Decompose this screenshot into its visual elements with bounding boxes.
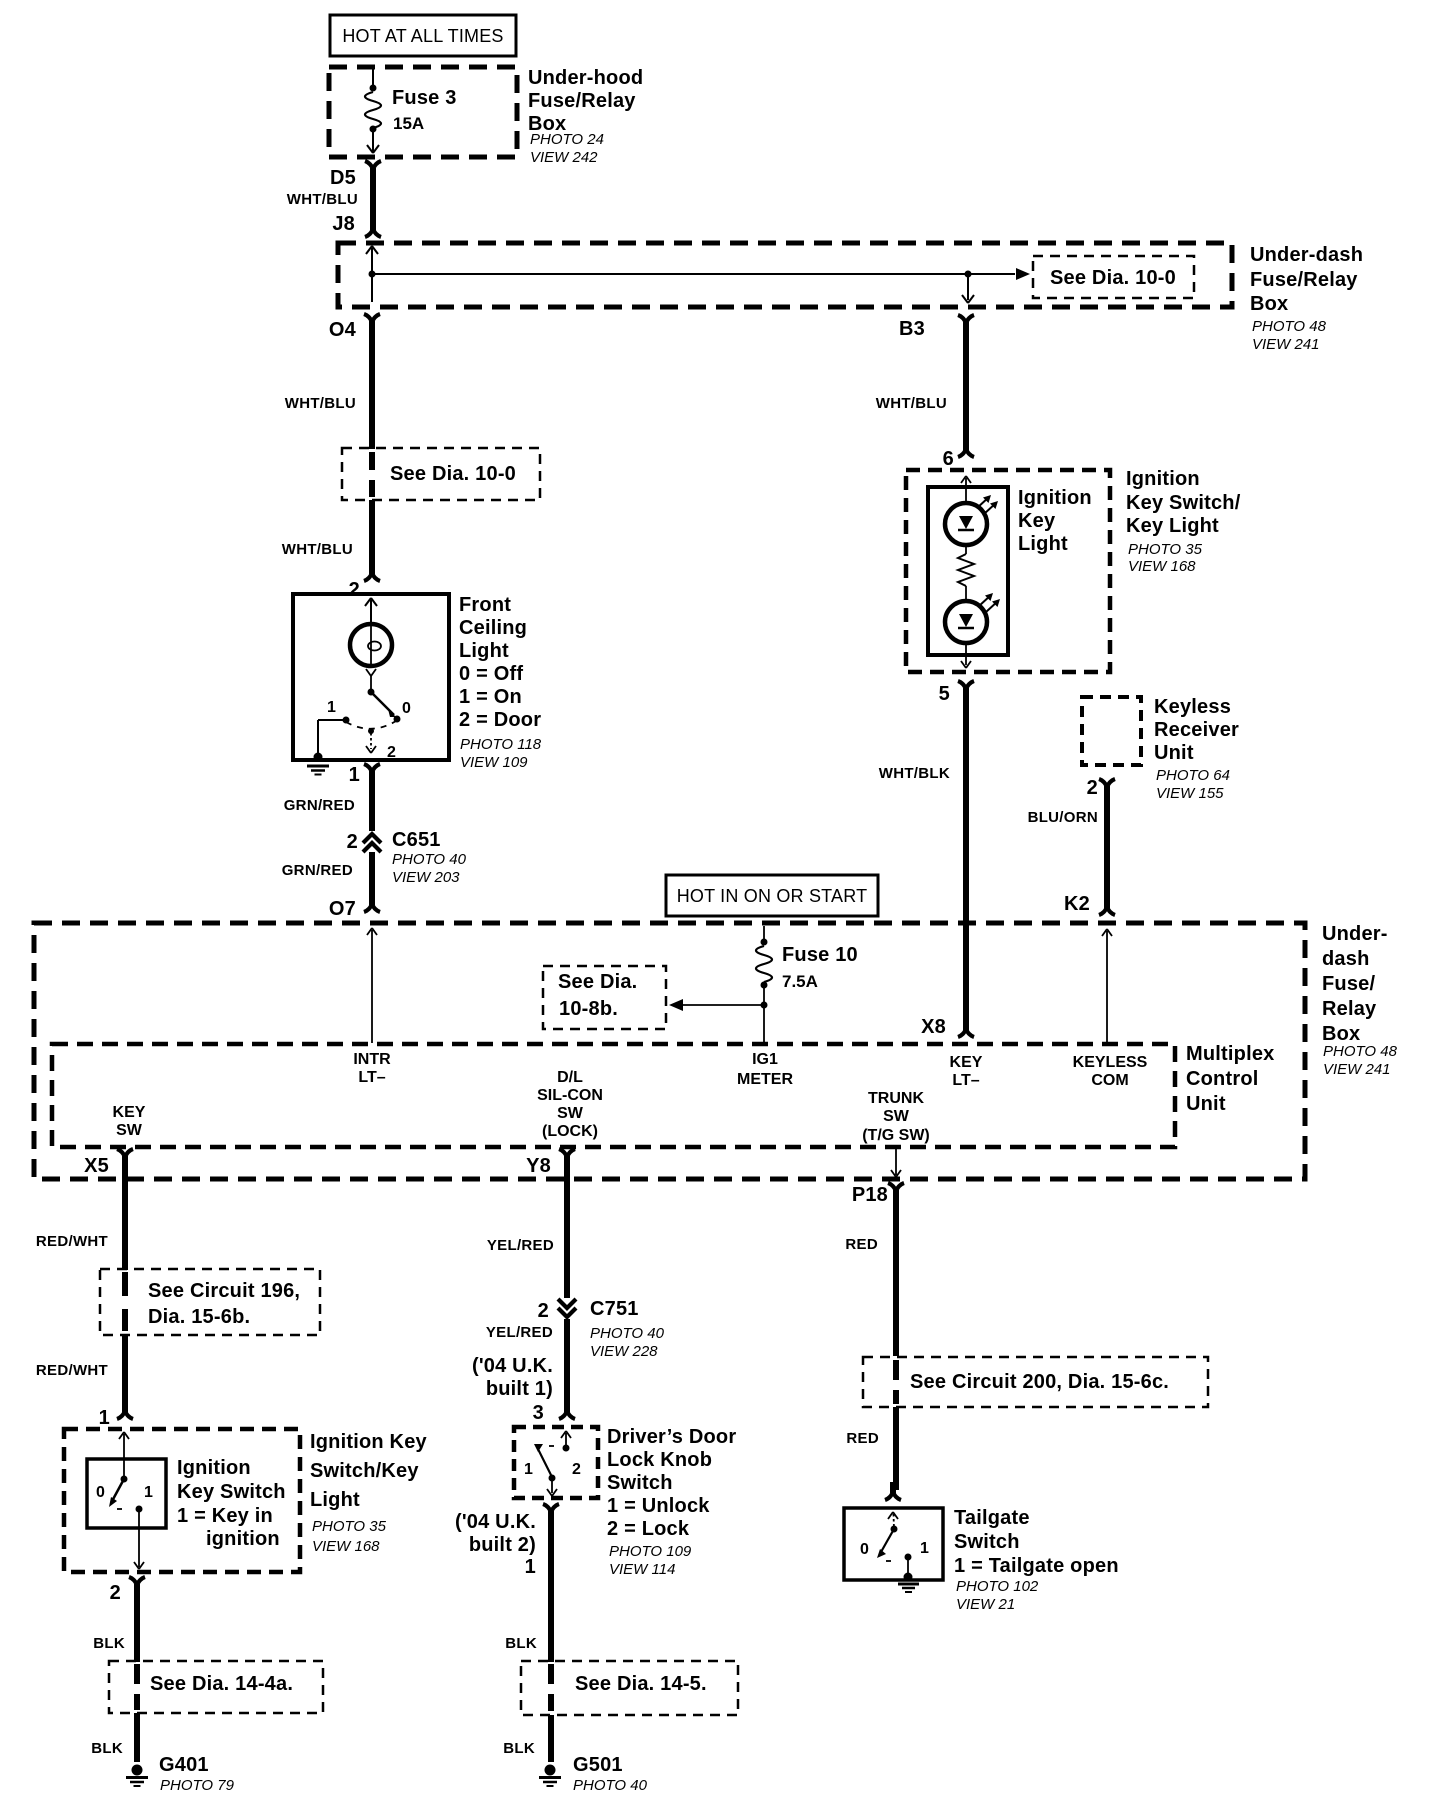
pin label IG1 METER xyxy=(737,1051,793,1088)
svg-text:PHOTO 109: PHOTO 109 xyxy=(609,1543,692,1560)
svg-text:LT–: LT– xyxy=(952,1072,979,1089)
svg-text:Fuse/Relay: Fuse/Relay xyxy=(1250,269,1358,291)
wire segment dashed inside reference box xyxy=(369,452,375,497)
svg-text:1 = Unlock: 1 = Unlock xyxy=(607,1495,710,1517)
svg-text:VIEW 114: VIEW 114 xyxy=(609,1561,675,1578)
svg-text:Driver’s Door: Driver’s Door xyxy=(607,1426,736,1448)
svg-text:3: 3 xyxy=(533,1402,544,1424)
under-hood fuse/relay box xyxy=(329,67,517,157)
wire dashed inside box xyxy=(893,1360,899,1404)
svg-text:Multiplex: Multiplex xyxy=(1186,1043,1274,1065)
under-dash fuse/relay box (lower) xyxy=(34,923,1305,1179)
LED lamp (key light upper) xyxy=(945,495,998,545)
svg-text:PHOTO 118: PHOTO 118 xyxy=(460,736,542,753)
svg-text:2: 2 xyxy=(110,1582,121,1604)
svg-text:G401: G401 xyxy=(159,1754,209,1776)
svg-text:Unit: Unit xyxy=(1154,742,1194,764)
svg-text:Lock Knob: Lock Knob xyxy=(607,1449,712,1471)
svg-text:WHT/BLK: WHT/BLK xyxy=(879,765,950,782)
svg-text:VIEW 109: VIEW 109 xyxy=(460,754,528,771)
connector pin 2 ceiling light xyxy=(349,563,380,601)
ground (tailgate switch, internal) xyxy=(898,1557,919,1592)
svg-text:RED/WHT: RED/WHT xyxy=(36,1233,108,1250)
svg-text:Key: Key xyxy=(1018,510,1056,532)
fuse 3 value labels xyxy=(392,87,457,133)
svg-text:INTR: INTR xyxy=(353,1051,391,1068)
svg-text:VIEW 155: VIEW 155 xyxy=(1156,785,1224,802)
reference box See Dia. 10-8b. xyxy=(543,966,666,1029)
svg-text:Switch: Switch xyxy=(954,1531,1020,1553)
connector pin 6 xyxy=(943,439,974,470)
note (04 U.K. built 2) xyxy=(455,1511,536,1578)
svg-text:Switch/Key: Switch/Key xyxy=(310,1460,419,1482)
wire RED/WHT lower (X5) xyxy=(36,1335,125,1409)
wire through key light xyxy=(961,476,971,503)
svg-text:VIEW 203: VIEW 203 xyxy=(392,869,460,886)
svg-text:WHT/BLU: WHT/BLU xyxy=(285,395,356,412)
svg-text:J8: J8 xyxy=(332,213,355,235)
svg-text:2: 2 xyxy=(349,579,360,601)
svg-text:PHOTO 24: PHOTO 24 xyxy=(530,131,604,148)
pin label TRUNK SW (T/G SW) + wire to P18 xyxy=(862,1090,930,1177)
LED lamp (key light lower) xyxy=(945,593,1000,643)
svg-text:(T/G SW): (T/G SW) xyxy=(862,1127,930,1144)
svg-text:Ignition Key: Ignition Key xyxy=(310,1431,428,1453)
svg-text:B3: B3 xyxy=(899,318,925,340)
svg-text:built 2): built 2) xyxy=(469,1534,536,1556)
ignition key light inner labels xyxy=(1018,487,1092,555)
svg-text:RED: RED xyxy=(846,1430,879,1447)
svg-text:15A: 15A xyxy=(393,114,424,133)
svg-text:Under-dash: Under-dash xyxy=(1250,244,1363,266)
connector pin 2 keyless xyxy=(1087,777,1115,799)
svg-text:D5: D5 xyxy=(330,167,356,189)
wire GRN/RED lower xyxy=(282,852,372,901)
ignition key switch inner box xyxy=(87,1459,166,1528)
svg-text:1: 1 xyxy=(327,699,336,716)
svg-text:WHT/BLU: WHT/BLU xyxy=(876,395,947,412)
svg-text:LT–: LT– xyxy=(358,1069,385,1086)
svg-text:BLK: BLK xyxy=(503,1740,535,1757)
svg-text:RED: RED xyxy=(845,1236,878,1253)
ignition key switch box (dashed) xyxy=(64,1429,300,1572)
wire YEL/RED lower (Y8) xyxy=(486,1319,567,1408)
junction + arrow to See Dia. 10-8b xyxy=(669,999,768,1011)
svg-text:2 = Door: 2 = Door xyxy=(459,709,541,731)
connector pin 5 xyxy=(939,681,974,705)
svg-text:METER: METER xyxy=(737,1071,793,1088)
svg-text:built 1): built 1) xyxy=(486,1378,553,1400)
svg-text:SIL-CON: SIL-CON xyxy=(537,1087,603,1104)
tailgate switch box xyxy=(844,1508,943,1580)
wire INTR LT- (O7 pin into multiplex) xyxy=(367,928,377,1043)
svg-text:KEYLESS: KEYLESS xyxy=(1073,1054,1148,1071)
svg-text:Key Light: Key Light xyxy=(1126,515,1219,537)
svg-text:2: 2 xyxy=(347,831,358,853)
ground (ceiling light switch, internal) xyxy=(307,720,346,775)
svg-text:VIEW 242: VIEW 242 xyxy=(530,149,598,166)
front ceiling light box xyxy=(293,594,449,760)
reference box See Circuit 196, Dia. 15-6b. xyxy=(100,1269,320,1335)
svg-text:1: 1 xyxy=(524,1461,533,1478)
svg-text:See Dia. 14-5.: See Dia. 14-5. xyxy=(575,1673,707,1695)
connector X8 xyxy=(921,1016,974,1038)
svg-text:X5: X5 xyxy=(84,1155,109,1177)
svg-text:COM: COM xyxy=(1091,1072,1128,1089)
svg-text:PHOTO 79: PHOTO 79 xyxy=(160,1777,235,1794)
svg-text:See Dia. 14-4a.: See Dia. 14-4a. xyxy=(150,1673,293,1695)
wire dashed inside box xyxy=(134,1664,140,1710)
svg-text:1 = Key in: 1 = Key in xyxy=(177,1505,273,1527)
svg-text:Fuse 3: Fuse 3 xyxy=(392,87,457,109)
pin label KEY LT- xyxy=(950,1054,983,1089)
wire BLK (G501 lower) xyxy=(503,1715,551,1762)
svg-text:1: 1 xyxy=(144,1484,153,1501)
wire BLU/ORN xyxy=(1028,787,1107,906)
multiplex control unit box xyxy=(52,1044,1175,1147)
svg-text:Y8: Y8 xyxy=(526,1155,551,1177)
svg-text:5: 5 xyxy=(939,683,950,705)
under-hood box name labels xyxy=(528,67,643,166)
wire KEYLESS COM (K2 into multiplex) xyxy=(1102,929,1112,1043)
reference box See Dia. 14-5. xyxy=(521,1661,738,1715)
under-dash fuse/relay box (upper) xyxy=(338,243,1232,307)
svg-text:Ceiling: Ceiling xyxy=(459,617,527,639)
svg-text:Front: Front xyxy=(459,594,511,616)
fuse Fuse 3 15A xyxy=(365,69,381,153)
svg-text:See Dia.: See Dia. xyxy=(558,971,637,993)
switch: ceiling light 3-position switch xyxy=(327,689,411,762)
resistor (key light) xyxy=(958,545,974,601)
svg-text:Keyless: Keyless xyxy=(1154,696,1231,718)
svg-text:ignition: ignition xyxy=(206,1528,280,1550)
note (04 U.K. built 1) xyxy=(472,1355,553,1400)
svg-text:0: 0 xyxy=(96,1484,105,1501)
svg-text:BLK: BLK xyxy=(91,1740,123,1757)
svg-text:Ignition: Ignition xyxy=(177,1457,251,1479)
svg-text:PHOTO 35: PHOTO 35 xyxy=(312,1518,387,1535)
ground G501 xyxy=(539,1754,648,1794)
svg-text:D/L: D/L xyxy=(557,1069,583,1086)
svg-text:PHOTO 102: PHOTO 102 xyxy=(956,1578,1039,1595)
drivers door lock knob switch box (dashed) xyxy=(514,1427,598,1498)
svg-text:PHOTO 48: PHOTO 48 xyxy=(1252,318,1327,335)
connector pin 1 ignition key switch xyxy=(99,1401,133,1429)
svg-text:K2: K2 xyxy=(1064,893,1090,915)
svg-text:SW: SW xyxy=(116,1122,143,1139)
svg-text:('04 U.K.: ('04 U.K. xyxy=(455,1511,536,1533)
under-dash box (lower) name labels xyxy=(1322,923,1398,1078)
connector above tailgate switch xyxy=(885,1482,901,1500)
svg-text:KEY: KEY xyxy=(113,1104,146,1121)
svg-text:10-8b.: 10-8b. xyxy=(559,998,618,1020)
ignition key switch / key light box (dashed) xyxy=(906,470,1110,672)
svg-text:VIEW 168: VIEW 168 xyxy=(312,1538,380,1555)
svg-text:SW: SW xyxy=(557,1105,584,1122)
lamp symbol (ceiling light bulb) xyxy=(350,598,392,690)
svg-text:YEL/RED: YEL/RED xyxy=(487,1237,554,1254)
connector C751 xyxy=(538,1298,665,1360)
svg-text:RED/WHT: RED/WHT xyxy=(36,1362,108,1379)
svg-text:VIEW 21: VIEW 21 xyxy=(956,1596,1015,1613)
svg-text:Ignition: Ignition xyxy=(1018,487,1092,509)
svg-text:0: 0 xyxy=(402,700,411,717)
svg-text:0: 0 xyxy=(860,1541,869,1558)
pin label INTR LT- xyxy=(353,1051,391,1086)
svg-text:6: 6 xyxy=(943,448,954,470)
svg-text:Control: Control xyxy=(1186,1068,1259,1090)
svg-text:TRUNK: TRUNK xyxy=(868,1090,924,1107)
svg-text:WHT/BLU: WHT/BLU xyxy=(287,191,358,208)
reference box See Dia. 10-0 (upper right) xyxy=(1033,256,1194,298)
svg-text:See Circuit 200, Dia. 15-6c.: See Circuit 200, Dia. 15-6c. xyxy=(910,1371,1169,1393)
svg-text:Under-: Under- xyxy=(1322,923,1388,945)
ignition key switch/key light name labels xyxy=(1126,468,1241,575)
wire WHT/BLU B3 down xyxy=(876,323,966,446)
switch: ignition key switch contacts xyxy=(96,1432,153,1569)
svg-text:HOT IN ON OR START: HOT IN ON OR START xyxy=(677,886,868,906)
power source label HOT AT ALL TIMES xyxy=(330,15,516,56)
svg-text:HOT AT ALL TIMES: HOT AT ALL TIMES xyxy=(342,26,503,46)
svg-text:PHOTO 64: PHOTO 64 xyxy=(1156,767,1230,784)
svg-text:1: 1 xyxy=(99,1407,110,1429)
connector pin 1 ceiling light xyxy=(349,764,380,786)
svg-text:X8: X8 xyxy=(921,1016,946,1038)
ignition key switch inner labels xyxy=(177,1457,286,1550)
wire BLK (G401 upper) xyxy=(93,1585,137,1662)
svg-text:PHOTO 40: PHOTO 40 xyxy=(573,1777,648,1794)
svg-text:0 = Off: 0 = Off xyxy=(459,663,523,685)
pin label D/L SIL-CON SW (LOCK) + connector Y8 xyxy=(526,1069,603,1177)
svg-text:Fuse 10: Fuse 10 xyxy=(782,944,858,966)
svg-text:1 = Tailgate open: 1 = Tailgate open xyxy=(954,1555,1119,1577)
svg-text:(LOCK): (LOCK) xyxy=(542,1123,598,1140)
connector P18 xyxy=(852,1183,904,1206)
svg-text:Box: Box xyxy=(1250,293,1288,315)
bus wire inside under-dash box xyxy=(366,246,1030,303)
tailgate switch name labels xyxy=(954,1507,1119,1613)
switch: door lock knob contacts xyxy=(524,1431,581,1496)
svg-text:G501: G501 xyxy=(573,1754,623,1776)
connector B3 xyxy=(899,315,974,340)
svg-text:Key Switch: Key Switch xyxy=(177,1481,286,1503)
svg-text:Tailgate: Tailgate xyxy=(954,1507,1030,1529)
wire WHT/BLU to ceiling light xyxy=(282,500,372,571)
svg-text:WHT/BLU: WHT/BLU xyxy=(282,541,353,558)
svg-text:BLK: BLK xyxy=(505,1635,537,1652)
svg-text:C751: C751 xyxy=(590,1298,639,1320)
connector pin 2 below ignition key switch xyxy=(110,1577,145,1604)
wire RED upper (P18) xyxy=(845,1191,896,1356)
svg-text:GRN/RED: GRN/RED xyxy=(282,862,353,879)
wire YEL/RED upper (Y8) xyxy=(487,1160,567,1298)
svg-text:P18: P18 xyxy=(852,1184,888,1206)
switch: tailgate switch contacts xyxy=(860,1512,929,1561)
svg-text:KEY: KEY xyxy=(950,1054,983,1071)
svg-text:('04 U.K.: ('04 U.K. xyxy=(472,1355,553,1377)
wire RED/WHT upper (X5) xyxy=(36,1160,125,1270)
svg-text:2: 2 xyxy=(387,744,396,761)
svg-text:See Dia. 10-0: See Dia. 10-0 xyxy=(1050,267,1176,289)
ignition key light inner box xyxy=(928,487,1008,655)
reference box See Dia. 10-0 (left column) xyxy=(342,448,540,500)
svg-text:Receiver: Receiver xyxy=(1154,719,1239,741)
drivers door lock knob switch name labels xyxy=(607,1426,736,1578)
svg-text:1 = On: 1 = On xyxy=(459,686,522,708)
svg-text:Dia. 15-6b.: Dia. 15-6b. xyxy=(148,1306,250,1328)
svg-text:See Circuit 196,: See Circuit 196, xyxy=(148,1280,300,1302)
svg-text:7.5A: 7.5A xyxy=(782,972,818,991)
front ceiling light name labels xyxy=(459,594,542,771)
svg-text:VIEW 241: VIEW 241 xyxy=(1252,336,1320,353)
wire RED lower (P18) xyxy=(846,1407,896,1490)
svg-text:Fuse/Relay: Fuse/Relay xyxy=(528,90,636,112)
keyless receiver unit box xyxy=(1082,697,1141,765)
connector K2 xyxy=(1064,893,1115,915)
svg-text:PHOTO 35: PHOTO 35 xyxy=(1128,541,1203,558)
svg-text:2: 2 xyxy=(538,1300,549,1322)
pin label KEYLESS COM xyxy=(1073,1054,1148,1089)
svg-text:Unit: Unit xyxy=(1186,1093,1226,1115)
reference box See Dia. 14-4a. xyxy=(109,1661,323,1713)
wire WHT/BLU D5-J8 xyxy=(287,170,373,226)
connector D5 xyxy=(330,161,381,189)
connector C651 xyxy=(347,829,467,886)
svg-text:VIEW 168: VIEW 168 xyxy=(1128,558,1196,575)
wire WHT/BLU O4 down xyxy=(285,322,372,449)
wire out of key light xyxy=(961,643,971,668)
svg-text:YEL/RED: YEL/RED xyxy=(486,1324,553,1341)
pin label KEY SW + connector X5 xyxy=(84,1104,146,1177)
connector pin 1 below door lock switch xyxy=(543,1504,559,1520)
svg-text:C651: C651 xyxy=(392,829,441,851)
wire BLK (G401 lower) xyxy=(91,1713,137,1762)
svg-text:2: 2 xyxy=(1087,777,1098,799)
svg-text:PHOTO 48: PHOTO 48 xyxy=(1323,1043,1398,1060)
svg-text:SW: SW xyxy=(883,1108,910,1125)
connector O7 xyxy=(329,894,380,920)
svg-text:Switch: Switch xyxy=(607,1472,673,1494)
svg-text:BLU/ORN: BLU/ORN xyxy=(1028,809,1098,826)
svg-text:Ignition: Ignition xyxy=(1126,468,1200,490)
svg-text:1: 1 xyxy=(920,1540,929,1557)
under-dash box (upper) name labels xyxy=(1250,244,1363,353)
wire GRN/RED upper xyxy=(284,772,372,831)
connector J8 xyxy=(332,213,381,237)
svg-text:1: 1 xyxy=(525,1556,536,1578)
power source label HOT IN ON OR START xyxy=(666,875,878,916)
svg-text:Light: Light xyxy=(459,640,509,662)
svg-text:PHOTO 40: PHOTO 40 xyxy=(392,851,467,868)
ignition key switch name labels (right) xyxy=(310,1431,428,1555)
svg-text:Under-hood: Under-hood xyxy=(528,67,643,89)
svg-text:2: 2 xyxy=(572,1461,581,1478)
keyless receiver unit name labels xyxy=(1154,696,1239,802)
ground G401 xyxy=(126,1754,235,1794)
reference box See Circuit 200, Dia. 15-6c. xyxy=(863,1357,1208,1407)
svg-text:Light: Light xyxy=(1018,533,1068,555)
svg-text:PHOTO 40: PHOTO 40 xyxy=(590,1325,665,1342)
svg-text:O4: O4 xyxy=(329,319,357,341)
svg-text:IG1: IG1 xyxy=(752,1051,778,1068)
svg-text:See Dia. 10-0: See Dia. 10-0 xyxy=(390,463,516,485)
svg-text:2 = Lock: 2 = Lock xyxy=(607,1518,690,1540)
wire BLK (G501 upper) xyxy=(505,1512,551,1662)
wire dashed inside box xyxy=(122,1272,128,1331)
fuse Fuse 10 7.5A xyxy=(756,926,772,1043)
multiplex control unit name labels xyxy=(1186,1043,1274,1115)
connector O4 xyxy=(329,314,380,341)
svg-text:VIEW 241: VIEW 241 xyxy=(1323,1061,1391,1078)
svg-text:dash: dash xyxy=(1322,948,1369,970)
svg-text:Fuse/: Fuse/ xyxy=(1322,973,1375,995)
svg-text:BLK: BLK xyxy=(93,1635,125,1652)
svg-text:GRN/RED: GRN/RED xyxy=(284,797,355,814)
svg-text:Light: Light xyxy=(310,1489,360,1511)
wire dashed inside box xyxy=(548,1664,554,1711)
fuse 10 value labels xyxy=(782,944,858,991)
svg-text:Key Switch/: Key Switch/ xyxy=(1126,492,1241,514)
svg-text:VIEW 228: VIEW 228 xyxy=(590,1343,658,1360)
svg-text:Box: Box xyxy=(1322,1023,1360,1045)
svg-text:Relay: Relay xyxy=(1322,998,1377,1020)
svg-text:1: 1 xyxy=(349,764,360,786)
wire WHT/BLK xyxy=(879,689,966,1026)
svg-text:O7: O7 xyxy=(329,898,356,920)
connector pin 3 door lock switch xyxy=(533,1401,575,1424)
